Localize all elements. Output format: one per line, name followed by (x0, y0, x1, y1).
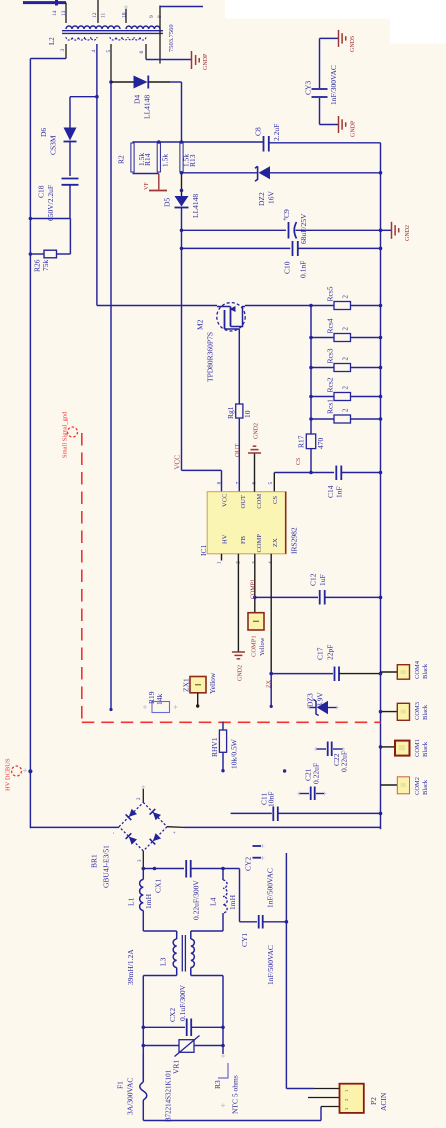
svg-text:R2: R2 (117, 155, 126, 164)
svg-text:ZX: ZX (272, 538, 279, 547)
svg-text:Rcs2: Rcs2 (326, 377, 335, 392)
node - open end dot (109, 708, 112, 711)
svg-text:68uF/25V: 68uF/25V (299, 213, 308, 244)
resistor R19 14k (unwired) (143, 705, 147, 709)
svg-text:LL4148: LL4148 (191, 194, 200, 218)
test pad COM2 Black (381, 784, 398, 786)
svg-text:11: 11 (101, 12, 107, 18)
svg-text:COM3: COM3 (414, 702, 421, 720)
test pad COMP1 Yellow (248, 613, 264, 630)
svg-text:L4: L4 (209, 897, 218, 906)
capacitor CX1 0.22uF/300V (185, 860, 187, 878)
svg-text:0.22uF/300V: 0.22uF/300V (192, 880, 201, 920)
capacitor C11 10nF (231, 812, 272, 814)
svg-text:4: 4 (91, 50, 97, 53)
capacitor C18 650V/2.2uF (62, 178, 79, 180)
svg-text:8: 8 (217, 482, 223, 485)
capacitor C9 68uF/25V electrolytic (182, 229, 287, 231)
svg-text:GNDP: GNDP (203, 53, 209, 70)
wire - pin 3 down to HV rail corner (65, 44, 67, 59)
svg-text:10: 10 (122, 12, 128, 18)
white page margin top-right (225, 0, 446, 19)
ground GNDS (320, 37, 339, 39)
resistor R17 470 (306, 434, 315, 449)
svg-text:C18: C18 (37, 185, 46, 198)
svg-text:75k: 75k (41, 260, 50, 272)
svg-text:ZX1: ZX1 (182, 678, 191, 692)
svg-text:L1: L1 (127, 897, 136, 906)
svg-text:CS3M: CS3M (49, 135, 58, 155)
wire - GND2 rail right side (380, 143, 382, 829)
svg-text:GND2: GND2 (405, 225, 411, 241)
wire - left HV DCBUS rail (29, 59, 31, 829)
svg-text:LL4148: LL4148 (143, 95, 152, 119)
svg-text:1: 1 (217, 561, 223, 564)
transistor M2 TPD80R360P7S (217, 303, 245, 331)
svg-text:CS: CS (272, 496, 279, 504)
svg-text:ACIN: ACIN (379, 1092, 388, 1111)
wire - bridge pin3 down (142, 851, 144, 869)
capacitor C8 2.2uF (263, 136, 265, 152)
wire - protective earth rail (285, 853, 287, 1089)
svg-text:GBU4J-E3/51: GBU4J-E3/51 (102, 845, 111, 888)
resistor R26 75k (30, 253, 44, 255)
svg-text:GND2: GND2 (238, 665, 244, 681)
wire - R2/R14 bottoms to VF (133, 173, 159, 175)
svg-text:12: 12 (92, 12, 98, 18)
resistor R2 1.5k (131, 143, 134, 172)
wire - COMP wire to C12 (255, 596, 318, 598)
svg-text:10: 10 (243, 410, 252, 418)
svg-text:1.5k: 1.5k (161, 154, 170, 167)
svg-text:COM2: COM2 (414, 777, 421, 795)
svg-text:3.9V: 3.9V (316, 692, 325, 707)
capacitor C17 22pF (334, 667, 336, 682)
wire - IC pin1 HV stub (221, 554, 223, 561)
power port VF (158, 174, 160, 190)
svg-text:2: 2 (342, 408, 350, 412)
wire - VCC corner to IC pin8 (182, 469, 222, 471)
svg-text:Black: Black (422, 704, 429, 720)
diode D6 CS3M (64, 128, 77, 141)
zener diode DZ3 3.9V (unwired) (307, 706, 311, 710)
svg-text:1nF/500VAC: 1nF/500VAC (266, 868, 275, 908)
svg-text:Black: Black (422, 779, 429, 795)
svg-text:COMP: COMP (256, 534, 263, 553)
svg-text:GNDS: GNDS (350, 36, 356, 52)
bridge rectifier BR1 GBU4J-E3/51 (90, 802, 168, 888)
test pad COM4 Black (381, 671, 398, 673)
svg-text:F1: F1 (116, 1081, 125, 1089)
svg-text:0.22uF: 0.22uF (340, 751, 349, 772)
common mode choke L3 39mH/1.2A (126, 931, 223, 985)
svg-text:6: 6 (139, 51, 145, 54)
ground GNDP at CY3 (320, 124, 339, 126)
svg-text:D4: D4 (133, 95, 142, 104)
svg-text:BR1: BR1 (90, 854, 99, 868)
svg-text:GNDP: GNDP (351, 120, 357, 137)
svg-text:R3: R3 (213, 1080, 222, 1089)
wire - drain wire (97, 305, 217, 307)
transformer L2 (48, 24, 175, 52)
svg-text:C9: C9 (282, 209, 291, 218)
resistor Rg1 10 (236, 404, 243, 418)
ground GND2 at C9 (381, 229, 392, 231)
svg-text:CY2: CY2 (244, 857, 253, 871)
inductor L1 1mH (142, 869, 144, 880)
svg-text:22pF: 22pF (326, 645, 335, 660)
wire - D4 output down to aux rail (181, 82, 183, 142)
svg-text:16V: 16V (267, 191, 276, 205)
svg-text:13: 13 (61, 10, 67, 16)
svg-text:RHV1: RHV1 (210, 737, 219, 757)
resistor RHV1 10k/0.5W (222, 722, 224, 731)
svg-text:0.1nF: 0.1nF (299, 261, 308, 278)
svg-text:5: 5 (268, 482, 274, 485)
wire - pin 6 down (145, 44, 147, 60)
svg-text:1uF: 1uF (318, 574, 327, 586)
resistor Rcs2 2 (311, 396, 334, 398)
wire - transformer pin 9/8 riser (159, 6, 161, 64)
capacitor C21 0.22uF (unwired) (297, 792, 301, 796)
wire - corner down to CY1 (239, 869, 241, 922)
svg-text:10k/0.5W: 10k/0.5W (230, 738, 239, 769)
svg-text:TPD80R360P7S: TPD80R360P7S (206, 332, 215, 382)
svg-text:Black: Black (422, 663, 429, 679)
wire - net from pin 8 going right (160, 6, 203, 8)
svg-text:0.22uF: 0.22uF (312, 763, 321, 784)
svg-text:IRS2982: IRS2982 (290, 527, 299, 554)
svg-text:D6: D6 (39, 128, 48, 137)
wire - bottom wire to P2 pin3 (143, 1120, 321, 1122)
ground GNDP at transformer (191, 51, 193, 69)
svg-text:7503.7560: 7503.7560 (168, 24, 175, 52)
svg-text:10nF: 10nF (267, 792, 276, 807)
svg-text:HV: HV (222, 534, 229, 544)
svg-text:COM1: COM1 (414, 739, 421, 757)
wire - transformer pin 13/14 up (65, 3, 67, 23)
connector P2 ACIN (286, 1088, 314, 1090)
svg-text:OUT: OUT (240, 495, 247, 508)
capacitor C22 0.22uF (unwired) (314, 747, 318, 751)
wire - transformer pin 10 stub (125, 8, 127, 23)
svg-text:Yellow: Yellow (259, 637, 266, 656)
svg-text:Rcs3: Rcs3 (326, 348, 335, 363)
svg-text:COM: COM (256, 494, 263, 509)
svg-text:Small Signal_gnd: Small Signal_gnd (62, 411, 69, 458)
svg-text:2: 2 (342, 386, 350, 390)
svg-text:Rcs4: Rcs4 (326, 318, 335, 333)
node - pin5/D4 junction (109, 80, 113, 84)
svg-text:2: 2 (342, 327, 350, 331)
wire - gate to Rg1 (238, 329, 240, 404)
svg-text:FB: FB (240, 535, 247, 544)
wire - pin5/D4 junction rail down (crosses drain wire) (110, 82, 112, 710)
svg-text:COM4: COM4 (414, 660, 421, 679)
capacitor CY3 1nF/300VAC (319, 38, 321, 88)
svg-text:Rcs5: Rcs5 (326, 286, 335, 301)
svg-text:VCC: VCC (174, 455, 182, 470)
zener diode DZ2 16V (182, 172, 258, 174)
svg-text:CX1: CX1 (154, 879, 163, 893)
resistor Rcs4 2 (311, 337, 334, 339)
svg-text:ZX: ZX (267, 679, 273, 688)
svg-text:VR1: VR1 (172, 1060, 181, 1074)
test pad ZX1 Yellow (190, 677, 206, 693)
capacitor C14 1nF (335, 466, 337, 481)
wire - aux top rail y142 (133, 141, 264, 143)
capacitor CY2 1nF/500VAC (unwired) (261, 844, 265, 848)
wire - ZX wire to C17 (271, 673, 333, 675)
svg-text:9: 9 (149, 15, 155, 18)
capacitor C12 1uF (319, 590, 321, 605)
svg-text:DZ2: DZ2 (257, 192, 266, 206)
svg-text:IC1: IC1 (199, 545, 208, 557)
op-amp IC1 IRS2982 controller (207, 492, 286, 554)
svg-text:2.2uF: 2.2uF (272, 124, 281, 141)
svg-text:B72214S321K101: B72214S321K101 (165, 1069, 173, 1122)
svg-text:NTC 5 ohms: NTC 5 ohms (231, 1075, 240, 1114)
svg-text:0.1uF/300V: 0.1uF/300V (178, 984, 187, 1021)
svg-text:2: 2 (342, 357, 350, 361)
svg-text:7: 7 (236, 482, 242, 485)
wire - source wire to Rcs rail (245, 305, 311, 307)
wire - VCC rail from D5 down (181, 208, 183, 471)
svg-text:+: + (173, 831, 178, 834)
wire - corner to left HV rail (30, 58, 66, 60)
svg-text:CY3: CY3 (304, 81, 313, 95)
svg-text:3: 3 (60, 49, 66, 52)
svg-text:VF: VF (144, 182, 150, 190)
diode D5 LL4148 (175, 196, 189, 207)
svg-text:1mH: 1mH (144, 893, 153, 909)
svg-text:1nF: 1nF (335, 486, 344, 498)
ground GND2 at pin 2 (232, 651, 245, 653)
capacitor CY1 1nF/500VAC (258, 915, 260, 929)
svg-text:D5: D5 (163, 198, 172, 207)
thermistor R3 NTC 5 ohms (unwired) (221, 1054, 225, 1058)
svg-text:L3: L3 (159, 957, 168, 966)
svg-text:1nF/500VAC: 1nF/500VAC (266, 945, 275, 985)
wire - R13 bottom to D5 (181, 172, 183, 196)
capacitor C10 0.1nF (182, 247, 291, 249)
svg-text:DZ3: DZ3 (306, 693, 315, 707)
wire - IC pin3 COMP down (254, 554, 256, 613)
svg-text:Black: Black (422, 741, 429, 757)
wire - clamp bottom to HV rail (30, 218, 70, 220)
svg-text:R14: R14 (143, 153, 152, 166)
wire - transformer pin 4 rail down to drain wire (96, 44, 98, 306)
wire - bridge left to HV rail (30, 826, 119, 828)
test pad COM1 Black (381, 746, 396, 748)
wire - Rcs left rail (310, 306, 312, 435)
wire - pin 6 to GNDP (146, 59, 192, 61)
svg-text:VCC: VCC (222, 494, 229, 507)
svg-text:GND2: GND2 (254, 423, 260, 439)
wire - top bar to pins 13/14 (cropped at top) (23, 1, 66, 4)
wire - AC node to CX1 (143, 868, 184, 870)
inductor L4 1mH (222, 869, 224, 881)
boundary Small Signal_gnd dashed (68, 427, 78, 437)
fuse F1 3A/300VAC (142, 1054, 144, 1082)
wire - right AC line down (222, 976, 224, 1055)
resistor R14 1.5k (157, 143, 160, 172)
svg-text:Rcs1: Rcs1 (326, 399, 335, 414)
wire - transformer pin 5 down (110, 44, 112, 82)
test pad COM3 Black (381, 711, 398, 713)
svg-text:OUT: OUT (234, 444, 241, 457)
wire - Rg1 to IC pin 7 OUT (238, 418, 240, 492)
svg-text:M2: M2 (196, 319, 205, 330)
svg-text:650V/2.2uF: 650V/2.2uF (46, 185, 55, 221)
svg-text:14: 14 (52, 10, 58, 16)
capacitor CX2 0.1uF/300V (143, 1026, 185, 1028)
svg-text:HV DCBUS: HV DCBUS (5, 758, 12, 791)
resistor Rcs1 2 (311, 418, 334, 420)
svg-text:C8: C8 (254, 127, 263, 136)
svg-text:14k: 14k (155, 694, 164, 706)
svg-text:8: 8 (157, 15, 163, 18)
svg-text:R17: R17 (297, 435, 306, 448)
wire - transformer pin 11/12 up (off page) (97, 0, 99, 23)
svg-text:1mH: 1mH (228, 894, 237, 910)
diode D4 LL4148 (111, 81, 134, 83)
svg-text:COMP1: COMP1 (251, 579, 257, 599)
wire - left AC line down (142, 976, 144, 1083)
wire - R26 right vertical (69, 219, 71, 255)
resistor R13 1.5k (180, 143, 183, 172)
svg-text:C17: C17 (316, 647, 325, 660)
svg-text:470: 470 (316, 438, 325, 450)
power port HV DCBUS (28, 769, 32, 773)
svg-text:CS: CS (296, 458, 302, 465)
node - floating junction dot (283, 769, 286, 772)
wire - CS wire to IC pin 5 (274, 472, 334, 474)
svg-text:P2: P2 (369, 1097, 378, 1105)
resistor Rcs5 2 (311, 305, 334, 307)
svg-text:3A/300VAC: 3A/300VAC (126, 1078, 135, 1115)
wire - IC pin4 ZX down (270, 554, 272, 674)
svg-text:Yellow: Yellow (208, 672, 217, 694)
svg-text:Rg1: Rg1 (226, 406, 235, 419)
svg-text:L2: L2 (48, 37, 56, 45)
wire - bridge right to GND2 rail (167, 826, 184, 829)
svg-text:39mH/1.2A: 39mH/1.2A (126, 949, 135, 985)
svg-text:2: 2 (342, 295, 350, 299)
svg-text:R13: R13 (188, 154, 197, 167)
svg-text:C12: C12 (309, 573, 318, 586)
svg-text:COMP1: COMP1 (251, 635, 258, 657)
svg-text:C10: C10 (283, 261, 292, 274)
svg-text:2: 2 (344, 1099, 349, 1101)
ground GND2 at IC pin 6 (254, 453, 256, 492)
wire - bridge pin2 stub up (142, 788, 144, 802)
svg-text:CX2: CX2 (168, 1008, 177, 1022)
svg-text:1nF/300VAC: 1nF/300VAC (329, 65, 338, 105)
svg-text:CY1: CY1 (240, 933, 249, 947)
resistor Rcs3 2 (311, 367, 334, 369)
wire - clamp branch from pin4 rail (70, 96, 97, 98)
varistor VR1 B72214S321K101 (143, 1045, 179, 1047)
wire - IC pin2 FB to GND2 (237, 554, 239, 652)
svg-text:1: 1 (344, 1090, 349, 1092)
